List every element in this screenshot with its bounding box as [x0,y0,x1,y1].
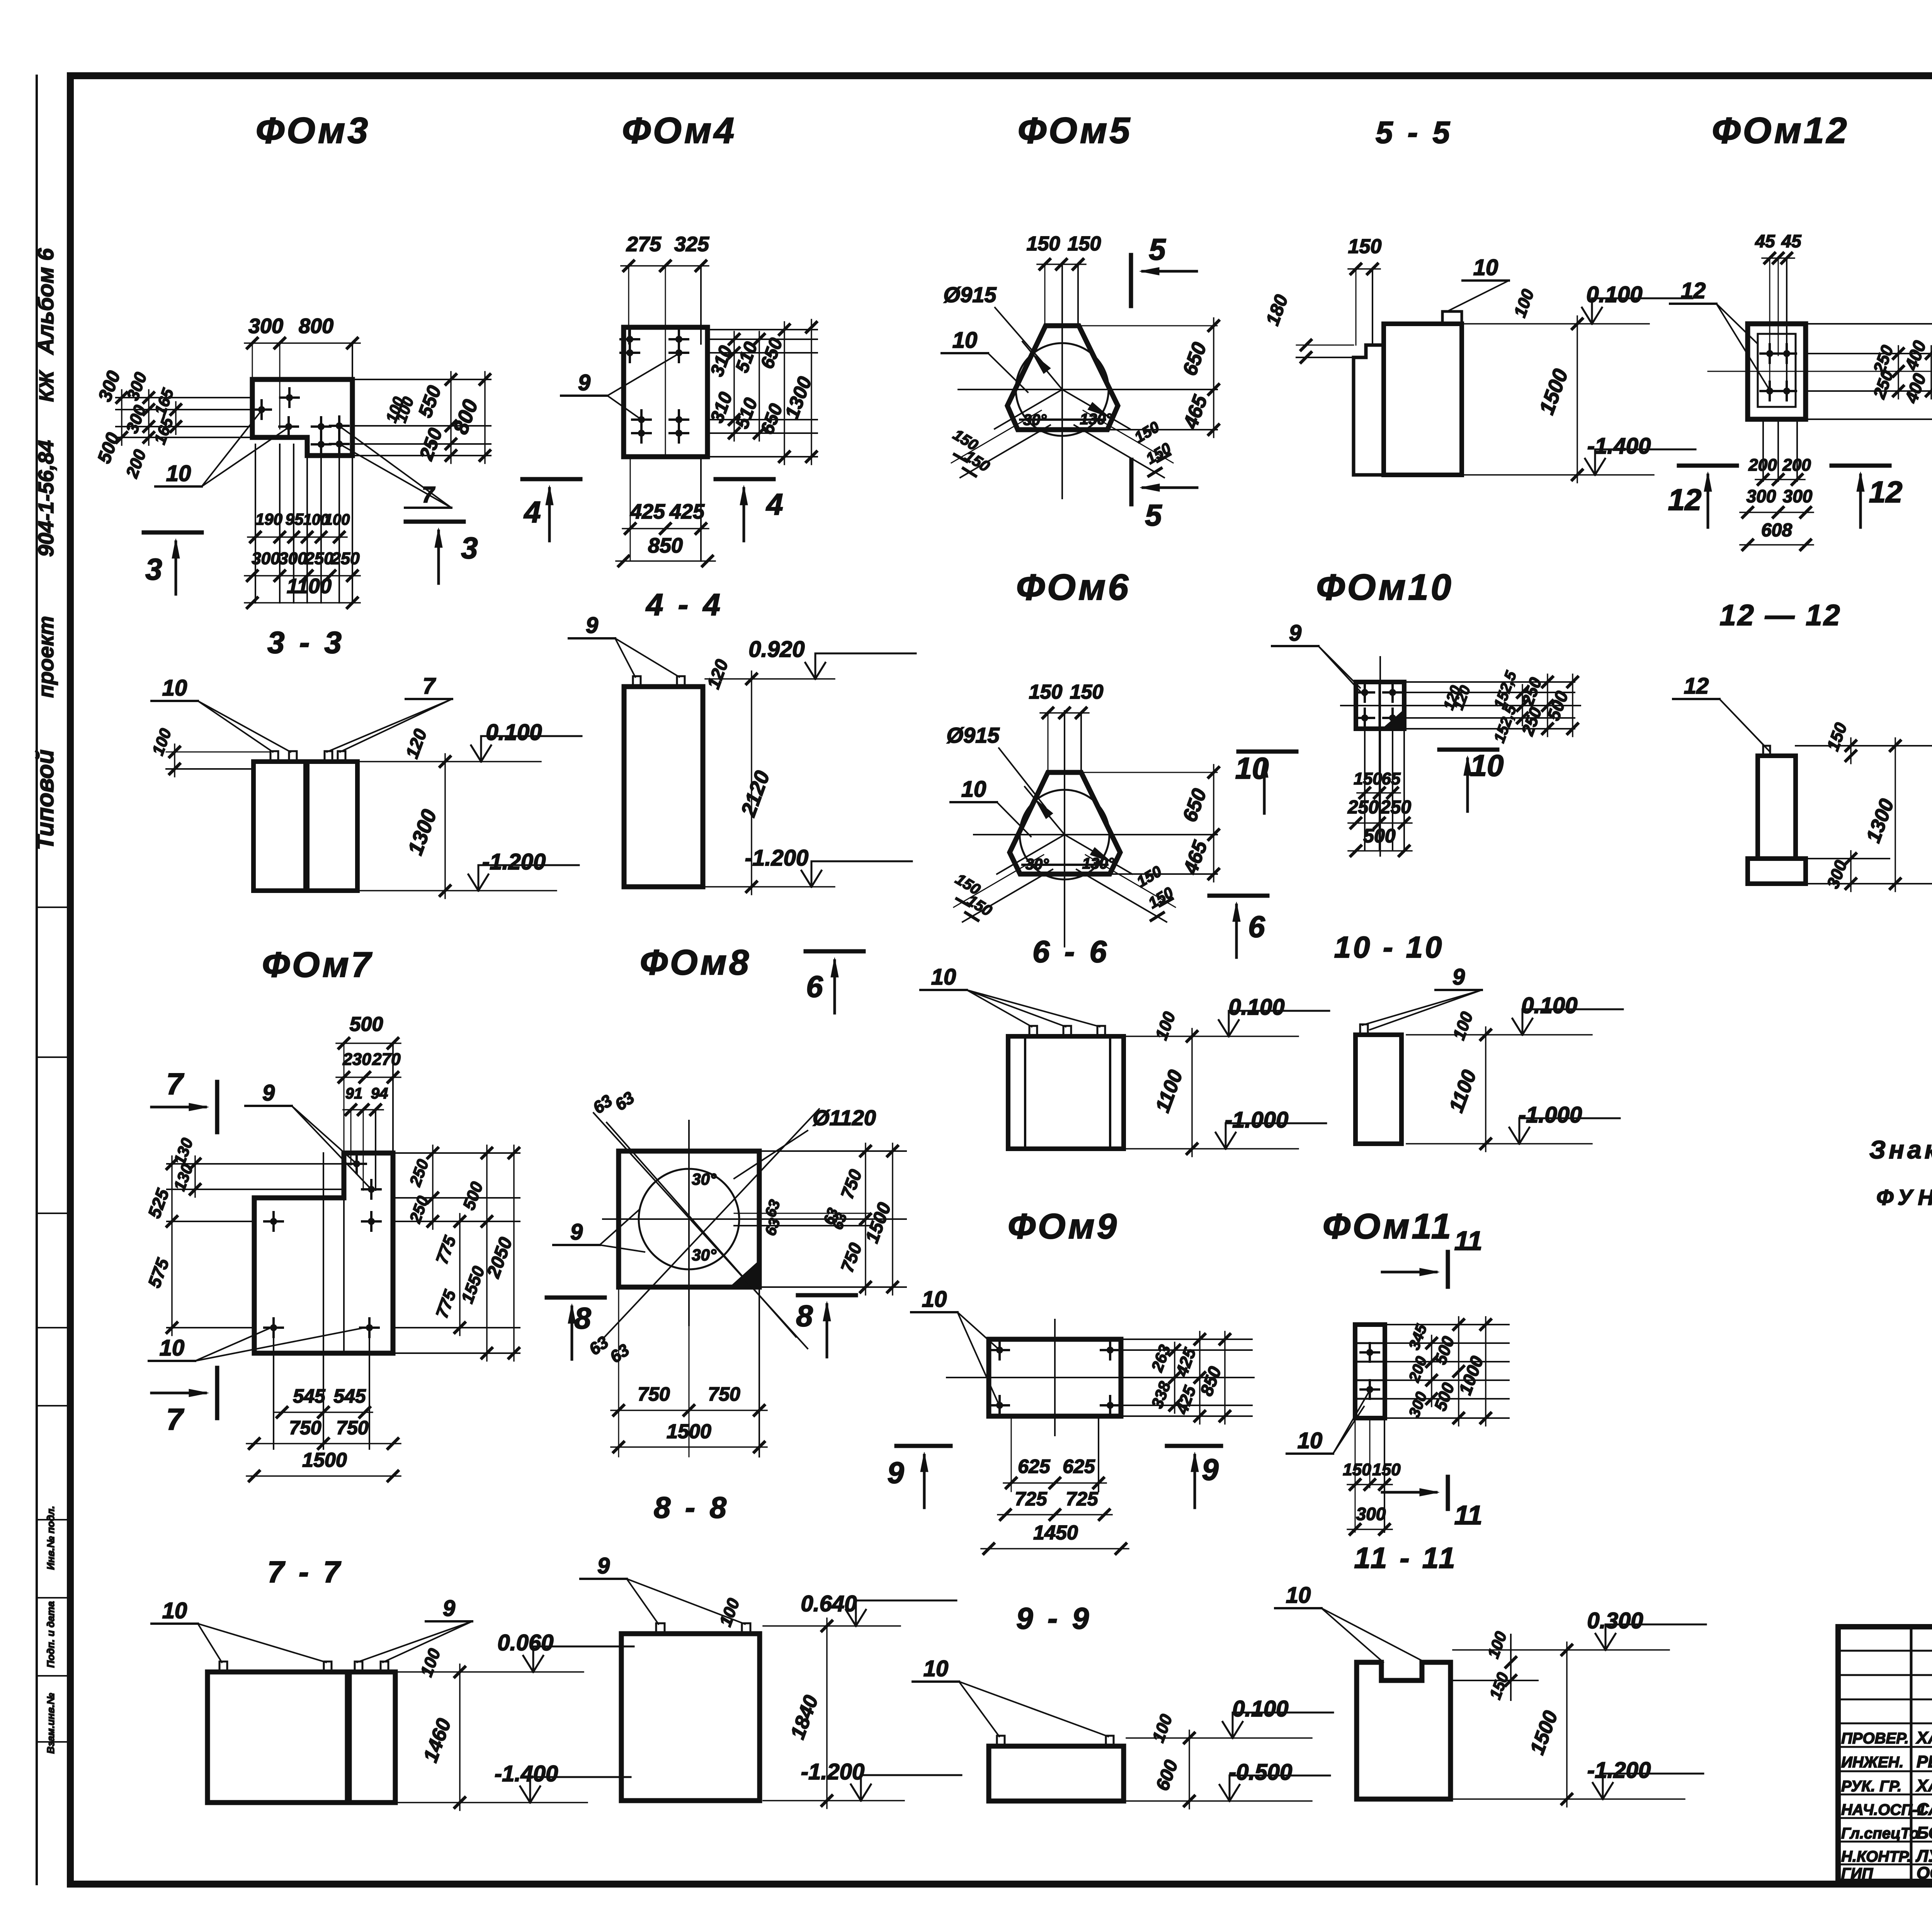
svg-text:9: 9 [1202,1452,1219,1486]
FOm8 right dimensions [734,1143,906,1295]
svg-text:6: 6 [1248,910,1265,944]
FOm9 right dimensions [1121,1332,1252,1424]
svg-text:500: 500 [1363,825,1396,847]
view FOm5 title [1018,110,1132,151]
svg-text:Альбом 6: Альбом 6 [33,248,58,355]
svg-text:-1.400: -1.400 [1587,434,1651,459]
svg-text:9: 9 [597,1553,610,1578]
section 5-5 dim 150 [1348,235,1382,345]
svg-text:150: 150 [1343,1460,1371,1479]
FOm11 anchor markers [1361,1343,1379,1399]
svg-text:7: 7 [166,1067,184,1101]
FOm5 section mark 5 top [1131,232,1197,306]
view FOm4 title [622,110,736,151]
svg-text:0.100: 0.100 [486,720,542,745]
section label 7-7 [267,1555,343,1589]
FOm4 top dimension 275 325 [621,233,709,457]
FOm3 leader 7 [340,427,451,508]
svg-text:12 — 12: 12 — 12 [1719,599,1841,632]
section 3-3 left dim 100 [148,726,270,777]
svg-text:10: 10 [923,1656,949,1681]
svg-text:10: 10 [1473,255,1498,280]
svg-text:проект: проект [34,616,58,698]
section 11-11 elevation 0.300 [1453,1608,1706,1807]
svg-text:300: 300 [1747,486,1776,506]
svg-text:12: 12 [1681,278,1706,303]
svg-text:ФОм3: ФОм3 [256,110,370,151]
FOm5 leader 10 [942,328,1028,392]
FOm4 right dimensions [707,320,817,464]
section 11-11 elevation -1.200 [1453,1758,1703,1799]
svg-text:ФОм9: ФОм9 [1008,1207,1119,1246]
section 5-5 leader 10 [1447,255,1509,311]
FOm6 section mark 6 left [806,951,864,1013]
svg-text:0.100: 0.100 [1232,1696,1288,1721]
svg-text:Ø915: Ø915 [947,723,1000,747]
section 3-3 drawing [253,751,357,891]
FOm9 leader 10 [911,1287,999,1405]
FOm11 leader 10 [1287,1390,1370,1454]
svg-text:30°: 30° [692,1170,717,1188]
FOm7 section mark 7 top [151,1067,217,1132]
svg-text:8: 8 [574,1301,591,1335]
section label 4-4 [645,587,723,622]
svg-text:425: 425 [630,500,665,523]
view FOm11 title [1323,1207,1453,1246]
section 8-8 drawing [621,1623,760,1801]
svg-text:10: 10 [1298,1428,1323,1453]
section 10-10 drawing [1355,1024,1401,1144]
view FOm3 plan outline [252,379,352,456]
svg-text:65: 65 [1382,769,1401,788]
svg-text:608: 608 [1761,520,1792,541]
svg-text:270: 270 [372,1050,401,1069]
FOm9 section mark 9 right [1167,1446,1221,1508]
section 9-9 elevation -0.500 [1126,1760,1330,1801]
section 6-6 elevation -1.000 [1126,1107,1326,1149]
FOm10 anchor markers [1355,683,1402,727]
svg-text:9: 9 [1452,964,1465,990]
view FOm11 plan outline [1355,1325,1385,1418]
view FOm12 plan outline [1748,324,1806,419]
svg-text:150: 150 [1029,681,1063,703]
svg-text:10: 10 [162,1598,187,1623]
svg-text:10: 10 [1470,748,1504,782]
FOm11 right dimensions [1385,1317,1509,1426]
svg-text:12: 12 [1684,673,1709,699]
svg-text:500: 500 [350,1013,383,1036]
view FOm7 title [262,945,373,985]
svg-text:250: 250 [304,549,333,568]
svg-text:Ø1120: Ø1120 [813,1105,876,1130]
svg-text:4: 4 [765,487,783,521]
section label 12-12 upper [1719,599,1841,632]
svg-text:9: 9 [570,1219,583,1245]
svg-text:275: 275 [626,233,662,256]
svg-text:425: 425 [669,500,705,523]
FOm7 bottom dimensions [247,1329,401,1481]
FOm10 bottom dimensions [1347,729,1412,856]
svg-text:750: 750 [289,1417,321,1439]
svg-text:800: 800 [299,315,333,338]
section 9-9 drawing [989,1736,1124,1801]
svg-text:КЖ: КЖ [36,370,58,402]
section 9-9 leader 10 [913,1656,1108,1736]
svg-text:0.100: 0.100 [1228,995,1284,1020]
svg-text:Знак: Знак [1869,1135,1932,1164]
svg-text:9: 9 [262,1080,275,1105]
svg-text:10: 10 [922,1287,947,1312]
view FOm4 plan outline [624,327,707,457]
section 3-3 elevation 0.100 [359,720,582,898]
svg-text:8: 8 [796,1299,813,1333]
FOm6 label phi915 [947,723,1046,808]
FOm10 right dimensions [1404,668,1578,745]
view FOm8 plan outline [619,1151,759,1287]
section 6-6 leader 10 [920,964,1100,1027]
svg-text:300: 300 [279,549,307,568]
section 5-5 title [1376,115,1453,150]
svg-text:150: 150 [1027,233,1060,255]
svg-text:9: 9 [887,1456,904,1490]
svg-text:325: 325 [674,233,709,256]
svg-text:850: 850 [648,534,683,557]
svg-text:ФУНДАМЕНТА ПРИ ЕГО ВЫПОЛНЕН: ФУНДАМЕНТА ПРИ ЕГО ВЫПОЛНЕНИИ. [1876,1185,1932,1210]
svg-text:150: 150 [1354,769,1382,788]
svg-text:ФОм4: ФОм4 [622,110,736,151]
svg-text:545: 545 [293,1385,326,1407]
FOm6 inscribed circle d915 [1020,790,1109,879]
svg-text:Н.КОНТР.: Н.КОНТР. [1841,1848,1911,1865]
svg-text:100: 100 [324,511,350,528]
svg-text:95: 95 [286,510,304,528]
svg-text:ЛУЦЕНКО: ЛУЦЕНКО [1915,1847,1932,1866]
FOm6 angle labels [1026,855,1115,873]
svg-text:0.100: 0.100 [1586,282,1642,307]
FOm3 bottom dimensions [245,444,360,608]
svg-text:300: 300 [248,315,283,338]
FOm9 section mark 9 left [887,1446,951,1508]
svg-text:ФОм8: ФОм8 [640,943,751,982]
FOm9 anchor markers [990,1341,1119,1415]
section 8-8 elevation 0.640 [716,1591,956,1808]
FOm6 top dimension 150 150 [1029,681,1104,772]
svg-text:-1.000: -1.000 [1519,1102,1582,1128]
FOm5 top dimension 150 150 [1027,233,1101,326]
FOm12 right dimensions [1806,316,1932,427]
FOm3 anchor markers [252,388,349,454]
svg-text:11: 11 [1454,1226,1483,1256]
svg-text:Гл.спецТо: Гл.спецТо [1841,1825,1919,1842]
svg-text:Подп. и дата: Подп. и дата [45,1601,56,1668]
svg-text:8 - 8: 8 - 8 [654,1490,730,1524]
svg-text:3: 3 [461,531,478,565]
section 10-10 elevation 0.100 [1406,993,1623,1151]
svg-text:РУК. ГР.: РУК. ГР. [1841,1778,1901,1795]
FOm7 leader 10 [149,1327,369,1361]
section 4-4 elevation -1.200 [705,845,912,887]
section 8-8 elevation -1.200 [763,1759,961,1801]
FOm9 centerlines [947,1320,1254,1435]
FOm4 bottom dimensions [616,457,715,566]
FOm4 section mark 4 left [522,479,580,541]
svg-text:1450: 1450 [1033,1522,1078,1544]
svg-text:12: 12 [1869,475,1903,509]
FOm11 bottom dimensions [1343,1418,1401,1534]
section label 10-10 upper [1334,930,1444,964]
svg-text:5: 5 [1149,232,1166,266]
svg-text:10: 10 [162,675,187,701]
svg-text:4 - 4: 4 - 4 [645,587,723,622]
FOm5 label phi915 [944,282,1044,363]
FOm10 centerlines [1341,657,1580,856]
section 12-12 leader 12 [1673,673,1770,752]
svg-text:12: 12 [1668,483,1702,517]
section 6-6 drawing [1008,1026,1124,1149]
section 3-3 leader 7 [327,673,452,752]
svg-text:-1.200: -1.200 [1587,1758,1651,1783]
svg-text:7 - 7: 7 - 7 [267,1555,343,1589]
section 4-4 leader 9 [569,613,679,677]
svg-text:300: 300 [1356,1504,1386,1524]
view FOm6 title [1016,567,1131,608]
FOm7 leader 9 [245,1080,371,1189]
svg-text:7: 7 [166,1402,184,1436]
FOm6 section mark 6 right [1209,896,1267,957]
svg-text:190: 190 [255,510,282,528]
svg-text:1500: 1500 [667,1420,711,1443]
FOm10 leader 9 [1272,621,1364,696]
svg-text:1100: 1100 [287,575,332,598]
svg-text:0.640: 0.640 [801,1591,857,1616]
svg-text:ФОм5: ФОм5 [1018,110,1132,151]
view FOm3 title [256,110,370,151]
note text line 1 [1869,1135,1932,1164]
svg-text:-1.000: -1.000 [1225,1107,1288,1133]
section 5-5 drawing [1354,311,1462,475]
svg-text:150: 150 [1070,681,1104,703]
section label 3-3 [267,625,345,660]
section 3-3 elevation -1.200 [359,849,579,891]
FOm10 section mark 10 left [1235,751,1296,813]
section 4-4 drawing [624,676,703,887]
svg-text:94: 94 [371,1085,388,1102]
FOm7 interior lines [323,1153,344,1445]
svg-text:545: 545 [333,1385,366,1407]
FOm4 leader 9 [561,354,679,420]
section 7-7 drawing [207,1662,395,1803]
FOm12 anchor markers [1760,344,1796,400]
FOm7 anchor markers [264,1155,381,1337]
FOm12 section mark left [1668,466,1737,527]
svg-text:45: 45 [1755,231,1776,251]
stamp main block frame [1838,1627,1932,1881]
svg-text:200: 200 [1782,456,1811,474]
svg-text:Типовой: Типовой [32,750,59,850]
stamp signature rows text [1841,1728,1932,1883]
FOm7 left dimensions [144,1136,344,1335]
section label 8-8 [654,1490,730,1524]
svg-text:-0.500: -0.500 [1229,1760,1292,1785]
view FOm7 plan outline [254,1153,393,1353]
section 7-7 leader 10 [151,1598,326,1662]
FOm8 centerlines and diagonals [594,1109,823,1349]
svg-text:230: 230 [342,1050,371,1069]
FOm3 top dimension 300 800 [245,315,360,429]
svg-text:БОЯРЧЕНКО: БОЯРЧЕНКО [1917,1823,1932,1842]
svg-text:625: 625 [1063,1456,1095,1477]
FOm12 top dim 45 45 [1755,231,1802,391]
svg-text:-1.200: -1.200 [745,845,808,871]
svg-text:1500: 1500 [302,1449,347,1471]
svg-text:130°: 130° [1082,855,1115,872]
svg-text:9 - 9: 9 - 9 [1016,1601,1092,1635]
view FOm10 title [1316,567,1453,608]
section 5-5 elevation 0.100 [1464,282,1692,483]
svg-text:Взам.инв.№: Взам.инв.№ [45,1693,56,1753]
svg-text:ПРОВЕР.: ПРОВЕР. [1841,1730,1909,1747]
svg-text:-1.200: -1.200 [801,1759,864,1784]
svg-text:3: 3 [145,552,162,586]
FOm5 right dimension 650 465 [1079,318,1219,437]
section 6-6 elevation 0.100 [1126,995,1329,1156]
section 11-11 leader 10 [1275,1583,1425,1662]
section label 11-11 [1354,1542,1457,1575]
FOm6 centerlines [974,711,1217,947]
FOm7 right dimensions [393,1145,520,1361]
section 8-8 leader 9 [580,1553,745,1624]
view FOm12 title [1712,110,1849,151]
FOm11 section mark 11 top [1382,1226,1482,1287]
FOm8 labels 63 63 [586,1088,784,1367]
svg-text:300: 300 [1783,486,1813,506]
svg-text:ГИП: ГИП [1841,1865,1873,1882]
svg-text:ФОм12: ФОм12 [1712,110,1849,151]
svg-text:150: 150 [1068,233,1101,255]
section label 9-9 [1016,1601,1092,1635]
svg-text:3 - 3: 3 - 3 [267,625,345,660]
svg-text:300: 300 [252,549,280,568]
FOm7 top dimensions 500 230 270 91 94 [336,1013,401,1190]
svg-text:6: 6 [806,969,823,1003]
FOm5 section mark 5 bottom [1131,460,1197,532]
svg-text:10: 10 [931,964,956,990]
svg-text:0.300: 0.300 [1587,1608,1643,1633]
svg-text:Инв.№ подл.: Инв.№ подл. [45,1506,56,1570]
svg-text:45: 45 [1781,231,1802,251]
FOm8 label phi1120 [734,1105,876,1179]
FOm4 section mark 4 right [716,479,783,541]
svg-text:6 - 6: 6 - 6 [1032,934,1110,969]
svg-text:30°: 30° [692,1246,717,1264]
FOm13 centerline [1886,371,1932,372]
view FOm10 plan outline [1356,682,1404,729]
view FOm9 title [1008,1207,1119,1246]
view FOm9 plan outline [989,1339,1121,1416]
FOm8 inscribed circle d1120 [639,1169,739,1269]
FOm8 leader 9 [553,1209,645,1252]
svg-text:-1.400: -1.400 [495,1761,558,1786]
FOm3 left dimensions [94,368,252,481]
svg-text:10: 10 [160,1335,185,1361]
svg-text:9: 9 [586,613,598,638]
svg-text:10: 10 [1235,751,1269,785]
svg-text:НАЧ.ОСП-1: НАЧ.ОСП-1 [1841,1801,1926,1818]
FOm5 angle labels [1023,411,1112,429]
section 11-11 drawing [1357,1662,1451,1799]
svg-text:ОСТАШЕВСКИЙ: ОСТАШЕВСКИЙ [1917,1863,1932,1883]
FOm8 section mark 8 left [547,1298,605,1359]
svg-text:0.060: 0.060 [497,1630,553,1655]
svg-text:11: 11 [1454,1500,1483,1530]
section 10-10 leader 9 [1362,964,1482,1030]
svg-text:-1.200: -1.200 [482,849,546,874]
FOm5 centerlines [958,264,1217,498]
svg-text:ФОм6: ФОм6 [1016,567,1131,608]
FOm6 right dimension 650 465 [1081,765,1219,882]
svg-text:ХАНИН: ХАНИН [1915,1728,1932,1747]
svg-text:5: 5 [1145,498,1162,532]
section 4-4 elevation 0.920 [703,637,916,895]
view FOm6 plan outline [1010,772,1120,874]
svg-text:0.920: 0.920 [748,637,804,662]
svg-text:250: 250 [1380,797,1411,818]
section label 6-6 [1032,934,1110,969]
svg-text:10: 10 [1286,1583,1311,1608]
svg-text:904-1-56,84: 904-1-56,84 [34,440,58,557]
svg-text:10: 10 [961,777,986,802]
FOm6 leader 10 [951,777,1031,837]
FOm8 angle labels [692,1170,717,1264]
svg-text:91: 91 [345,1085,363,1102]
FOm3 section mark 3 right [406,522,478,583]
FOm3 right dimensions [352,372,491,463]
svg-text:11 - 11: 11 - 11 [1354,1542,1457,1575]
FOm7 section mark 7 bottom [151,1368,217,1436]
FOm11 section mark 11 bottom [1382,1477,1482,1530]
svg-text:ФОм10: ФОм10 [1316,567,1453,608]
svg-text:РЕШЕТНИКОВА: РЕШЕТНИКОВА [1917,1752,1932,1771]
svg-text:7: 7 [423,673,436,699]
svg-text:ФОм7: ФОм7 [262,945,373,985]
svg-text:0.100: 0.100 [1521,993,1577,1018]
svg-text:9: 9 [578,370,590,395]
section 7-7 elevation 0.060 [398,1630,634,1810]
section 5-5 dim 180 [1262,292,1356,362]
svg-text:625: 625 [1018,1456,1051,1477]
FOm4 anchor markers [621,330,688,442]
svg-text:30°: 30° [1023,412,1047,429]
FOm12 bottom dimensions [1740,419,1813,550]
svg-text:9: 9 [443,1596,455,1621]
svg-text:5 - 5: 5 - 5 [1376,115,1453,150]
svg-text:150: 150 [1372,1460,1401,1479]
FOm10 section mark 10 right [1439,748,1503,811]
svg-text:10: 10 [952,328,978,353]
FOm6 leg axes with dims [952,855,1176,922]
svg-text:750: 750 [638,1383,670,1405]
FOm9 bottom dimensions [981,1416,1129,1554]
note text line 2 [1876,1185,1932,1210]
svg-text:ИНЖЕН.: ИНЖЕН. [1841,1754,1903,1771]
svg-text:150: 150 [1348,235,1382,258]
svg-text:9: 9 [1289,621,1301,646]
svg-text:ХАНИН: ХАНИН [1915,1776,1932,1795]
section 10-10 elevation -1.000 [1406,1102,1620,1144]
FOm5 inscribed circle d915 [1016,343,1109,436]
svg-text:725: 725 [1066,1488,1099,1510]
svg-text:250: 250 [1347,797,1379,818]
